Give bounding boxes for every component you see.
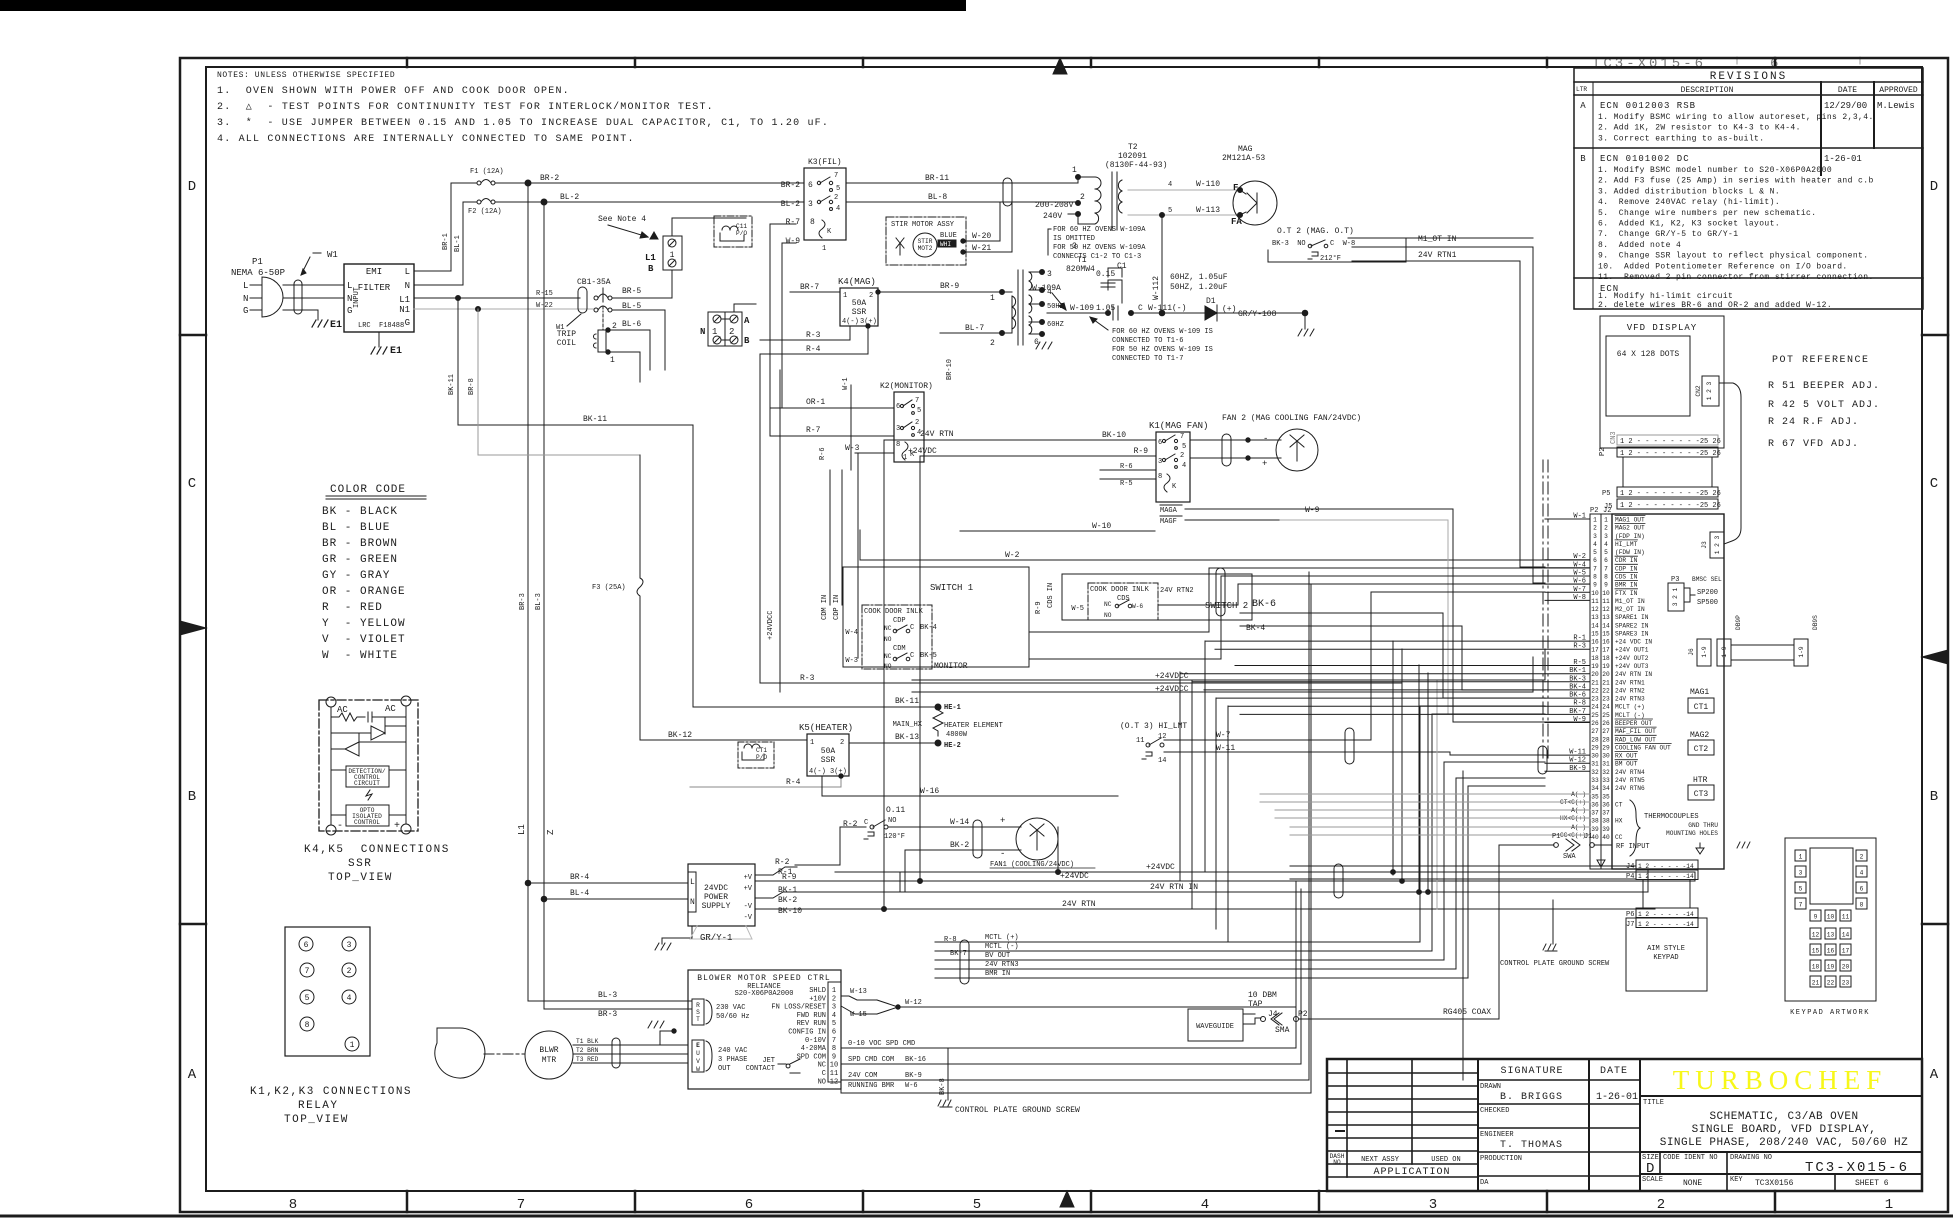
svg-text:+24 VDC IN: +24 VDC IN <box>1615 639 1652 646</box>
svg-text:DRAWING NO: DRAWING NO <box>1730 1154 1772 1162</box>
svg-text:1: 1 <box>1072 166 1077 175</box>
switch 2 outline <box>1062 574 1252 620</box>
R-2 wire to PS <box>795 827 866 865</box>
+24VDC lower run <box>835 871 1695 873</box>
svg-text:REVISIONS: REVISIONS <box>1710 71 1787 83</box>
svg-text:BL-3: BL-3 <box>535 593 543 610</box>
wire harness <box>448 224 1695 1100</box>
svg-text:M2_OT IN: M2_OT IN <box>1615 606 1645 613</box>
junction dots <box>882 907 887 912</box>
svg-text:W-113: W-113 <box>1196 206 1220 215</box>
svg-text:W-16: W-16 <box>920 787 939 796</box>
keypad ribbon feed <box>1290 865 1636 867</box>
svg-text:CONTROL PLATE GROUND SCREW: CONTROL PLATE GROUND SCREW <box>955 1106 1080 1115</box>
svg-text:WAVEGUIDE: WAVEGUIDE <box>1196 1023 1234 1031</box>
wire W-11 OT3 to pin 30 <box>1300 752 1545 755</box>
svg-text:34: 34 <box>1591 785 1599 792</box>
zone letters left/right <box>180 179 1948 1083</box>
svg-text:M1_OT IN: M1_OT IN <box>1418 235 1457 244</box>
svg-text:MOT2: MOT2 <box>918 245 933 252</box>
svg-text:W-2: W-2 <box>1005 551 1020 560</box>
svg-text:SMA: SMA <box>1275 1026 1290 1035</box>
svg-text:12/29/00: 12/29/00 <box>1824 101 1867 111</box>
svg-text:16: 16 <box>1591 639 1599 646</box>
svg-text:K: K <box>827 228 832 236</box>
svg-text:15: 15 <box>1591 631 1599 638</box>
wire N plug to EMI <box>283 297 344 299</box>
svg-text:8. Added note 4: 8. Added note 4 <box>1598 241 1681 250</box>
wire OR-1 <box>770 407 894 409</box>
triac diodes <box>331 718 406 740</box>
svg-text:MCTL (+): MCTL (+) <box>985 934 1019 942</box>
svg-text:D1: D1 <box>1206 297 1216 306</box>
svg-text:J2: J2 <box>1603 507 1611 515</box>
svg-text:POWER: POWER <box>704 893 728 902</box>
wire BL-4 to PS N <box>541 896 547 902</box>
coax RG405 <box>1299 959 1499 1019</box>
svg-text:BMSC SEL: BMSC SEL <box>1692 576 1722 583</box>
svg-text:V: V <box>696 1058 700 1065</box>
wire R-7 to K2 <box>770 435 894 437</box>
svg-text:120°F: 120°F <box>884 832 905 841</box>
svg-text:7: 7 <box>517 1197 525 1213</box>
svg-text:17: 17 <box>1591 647 1599 654</box>
cable dash-dot boundary <box>1542 460 1544 760</box>
svg-text:10: 10 <box>1827 914 1835 921</box>
svg-text:1: 1 <box>903 454 907 462</box>
svg-text:A: A <box>1930 1067 1939 1083</box>
svg-text:B: B <box>648 264 654 274</box>
svg-text:E1: E1 <box>330 320 342 331</box>
svg-text:3: 3 <box>896 425 900 433</box>
svg-text:MCTL (-): MCTL (-) <box>985 943 1019 951</box>
svg-text:FA: FA <box>1231 217 1242 227</box>
svg-text:KEY: KEY <box>1730 1176 1743 1184</box>
svg-text:BK-10: BK-10 <box>1102 431 1126 440</box>
previous sheet sliver top right <box>1592 56 1860 72</box>
svg-text:CT: CT <box>1615 801 1623 808</box>
K4 SSR / T1 / C1 network <box>760 226 1314 462</box>
svg-text:W: W <box>696 1066 700 1073</box>
svg-text:W-111(-): W-111(-) <box>1148 304 1186 313</box>
svg-text:BK-6: BK-6 <box>1252 599 1276 610</box>
svg-text:CB1-35A: CB1-35A <box>577 278 611 287</box>
svg-text:BK-4: BK-4 <box>920 624 937 632</box>
svg-text:P4: P4 <box>1626 873 1634 881</box>
connector J6 <box>1697 639 1711 666</box>
svg-text:12: 12 <box>830 1078 838 1086</box>
svg-text:7: 7 <box>1604 565 1608 572</box>
svg-text:V - VIOLET: V - VIOLET <box>322 634 406 646</box>
svg-text:A: A <box>188 1067 197 1083</box>
svg-text:+24V OUT2: +24V OUT2 <box>1615 655 1649 662</box>
svg-text:F1 (12A): F1 (12A) <box>470 168 504 176</box>
svg-text:NO: NO <box>884 636 892 643</box>
wire BR-3 to blower S <box>544 1008 692 1010</box>
svg-text:SWA: SWA <box>1563 853 1576 861</box>
svg-text:MCLT (+): MCLT (+) <box>1615 704 1645 711</box>
svg-text:PRODUCTION: PRODUCTION <box>1480 1155 1522 1163</box>
wire W-10 <box>960 530 1155 532</box>
svg-text:B: B <box>1930 789 1938 805</box>
svg-text:CONNECTS C1-2 TO C1-3: CONNECTS C1-2 TO C1-3 <box>1053 253 1141 261</box>
svg-text:HEATER ELEMENT: HEATER ELEMENT <box>944 722 1003 730</box>
svg-text:SPARE2 IN: SPARE2 IN <box>1615 622 1649 629</box>
svg-text:AC: AC <box>385 704 396 714</box>
svg-text:T: T <box>696 1016 700 1023</box>
svg-text:J3: J3 <box>1701 541 1708 549</box>
svg-text:MAGF: MAGF <box>1160 518 1177 526</box>
svg-text:K: K <box>1172 483 1177 491</box>
svg-text:+V: +V <box>744 885 753 893</box>
svg-text:MAGA: MAGA <box>1160 507 1178 515</box>
svg-text:L1: L1 <box>399 295 410 305</box>
svg-text:+24V OUT1: +24V OUT1 <box>1615 647 1649 654</box>
svg-text:MAG1 OUT: MAG1 OUT <box>1615 517 1645 524</box>
svg-text:W1: W1 <box>327 250 338 260</box>
svg-text:0-10 VOC SPD CMD: 0-10 VOC SPD CMD <box>848 1040 915 1048</box>
svg-text:TAP: TAP <box>1248 1000 1263 1009</box>
svg-text:12: 12 <box>1812 932 1820 939</box>
svg-text:DESCRIPTION: DESCRIPTION <box>1681 86 1734 95</box>
24VDC power supply <box>688 864 755 926</box>
svg-text:BR-3: BR-3 <box>598 1010 617 1019</box>
svg-text:6: 6 <box>808 181 813 190</box>
svg-text:+24V OUT3: +24V OUT3 <box>1615 663 1649 670</box>
svg-text:SP200: SP200 <box>1697 589 1718 597</box>
svg-text:19: 19 <box>1591 663 1599 670</box>
svg-text:38: 38 <box>1591 818 1599 825</box>
wire BR-9 K4 to T1 <box>878 291 1002 293</box>
svg-text:1 2 - - - - - - - -25 26: 1 2 - - - - - - - -25 26 <box>1620 490 1721 498</box>
BK wires risers <box>1215 698 1217 929</box>
control plate ground screw left <box>938 1100 952 1107</box>
svg-text:W-109: W-109 <box>1070 304 1094 313</box>
svg-text:(FDP IN): (FDP IN) <box>1615 533 1645 540</box>
svg-text:W-3: W-3 <box>845 657 858 665</box>
svg-text:R-8: R-8 <box>944 936 957 944</box>
svg-text:7. Change GR/Y-5 to GR/Y-1: 7. Change GR/Y-5 to GR/Y-1 <box>1598 230 1738 239</box>
svg-text:C: C <box>1138 304 1143 313</box>
svg-text:25: 25 <box>1591 712 1599 719</box>
svg-text:BL-2: BL-2 <box>781 200 800 209</box>
svg-text:P3: P3 <box>1671 576 1679 584</box>
svg-text:1: 1 <box>822 245 826 253</box>
svg-text:20: 20 <box>1842 964 1850 971</box>
svg-text:CONTROL: CONTROL <box>354 819 380 826</box>
svg-text:3: 3 <box>832 1004 836 1012</box>
riser W-3 to switch1 <box>857 453 859 658</box>
svg-text:3: 3 <box>1604 533 1608 540</box>
svg-text:23: 23 <box>1842 980 1850 987</box>
svg-text:BMR IN: BMR IN <box>985 970 1010 978</box>
svg-text:18: 18 <box>1591 655 1599 662</box>
svg-text:NO: NO <box>1104 612 1112 619</box>
wire W-109 <box>1047 312 1108 314</box>
svg-text:STIR MOTOR ASSY: STIR MOTOR ASSY <box>891 221 955 229</box>
wire W-2 to pin 6 <box>860 530 1590 560</box>
svg-text:CT2: CT2 <box>1694 745 1709 754</box>
svg-text:4: 4 <box>836 205 840 213</box>
PS output wire R-2 <box>755 867 797 875</box>
svg-text:0-10V: 0-10V <box>805 1037 827 1045</box>
wire 24V RTN1 run <box>1352 261 1545 567</box>
svg-text:SWITCH 1: SWITCH 1 <box>930 583 973 593</box>
svg-text:2: 2 <box>1180 452 1184 460</box>
wire EMI N out to BL-1 riser <box>414 202 463 285</box>
svg-text:1: 1 <box>1885 1197 1893 1213</box>
svg-text:9. Change SSR layout to refle: 9. Change SSR layout to reflect physical… <box>1598 252 1868 261</box>
svg-text:4: 4 <box>832 1012 836 1020</box>
svg-text:31: 31 <box>1602 761 1610 768</box>
svg-text:3: 3 <box>1593 533 1597 540</box>
svg-text:1: 1 <box>1799 854 1803 861</box>
svg-text:1: 1 <box>810 739 814 747</box>
svg-text:BR-5: BR-5 <box>622 287 641 296</box>
svg-text:1: 1 <box>843 292 847 300</box>
svg-text:(O.T 3) HI_LMT: (O.T 3) HI_LMT <box>1120 722 1187 731</box>
wire BL-3 to blower R <box>528 1000 692 1002</box>
svg-text:N: N <box>243 294 248 304</box>
wire CN2 to J3 <box>1719 383 1741 544</box>
svg-text:4: 4 <box>1182 462 1186 470</box>
svg-text:DB9P: DB9P <box>1735 615 1742 630</box>
svg-text:FWD RUN: FWD RUN <box>797 1012 826 1020</box>
svg-text:36: 36 <box>1602 801 1610 808</box>
svg-text:12: 12 <box>1591 606 1599 613</box>
svg-text:TC3X0156: TC3X0156 <box>1755 1179 1794 1188</box>
svg-text:CONTROL PLATE GROUND SCREW: CONTROL PLATE GROUND SCREW <box>1500 960 1610 968</box>
svg-text:BK-11: BK-11 <box>583 415 607 424</box>
svg-text:9: 9 <box>1814 914 1818 921</box>
24VDC power supply <box>655 858 1695 950</box>
svg-text:7: 7 <box>1799 902 1803 909</box>
svg-text:CHECKED: CHECKED <box>1480 1107 1509 1115</box>
wire W-111 to D1 <box>1131 312 1205 314</box>
K5 output wires <box>690 776 841 787</box>
wire from trip coil pin1 <box>610 352 640 382</box>
svg-text:BK-12: BK-12 <box>668 731 692 740</box>
svg-text:CDP IN: CDP IN <box>833 595 841 620</box>
svg-text:BR - BROWN: BR - BROWN <box>322 538 398 550</box>
wire 24V RTN to K1-6 <box>884 439 1156 441</box>
K1 K2 K3 relay top view <box>250 927 412 1126</box>
svg-text:KEYPAD ARTWORK: KEYPAD ARTWORK <box>1790 1009 1870 1017</box>
waveguide and coax <box>938 900 1610 1115</box>
svg-text:1 2 3: 1 2 3 <box>1706 381 1713 400</box>
svg-text:29: 29 <box>1602 744 1610 751</box>
K4 output wires R-3 R-4 <box>760 326 850 340</box>
connector P6 row <box>1636 908 1698 918</box>
svg-text:W-109A: W-109A <box>1032 284 1061 293</box>
svg-text:NEXT ASSY: NEXT ASSY <box>1361 1156 1400 1164</box>
svg-text:CT1: CT1 <box>1694 703 1709 712</box>
svg-text:6: 6 <box>1604 557 1608 564</box>
svg-text:EMI: EMI <box>366 267 382 277</box>
stir motor assembly <box>886 183 1012 265</box>
svg-text:21: 21 <box>1602 679 1610 686</box>
svg-text:BK - BLACK: BK - BLACK <box>322 506 398 518</box>
fan verticals to 24V rails <box>1392 641 1394 875</box>
cook door intlk switch 2 <box>1088 583 1158 620</box>
svg-text:NC: NC <box>1104 601 1112 608</box>
svg-text:E: E <box>696 1042 700 1049</box>
svg-text:2: 2 <box>832 995 836 1003</box>
svg-text:ECN 0101002 DC: ECN 0101002 DC <box>1600 154 1690 164</box>
detection control circuit <box>346 766 389 787</box>
svg-text:24: 24 <box>1602 704 1610 711</box>
svg-text:4: 4 <box>347 994 352 1003</box>
svg-text:7: 7 <box>834 172 838 180</box>
svg-text:BR-4: BR-4 <box>570 873 589 882</box>
svg-text:15: 15 <box>1812 948 1820 955</box>
EMI ground E1 <box>378 332 380 347</box>
svg-text:K5(HEATER): K5(HEATER) <box>799 723 853 733</box>
svg-text:NONE: NONE <box>1683 1179 1702 1188</box>
wires R-6 R-5 to K1-8 <box>1100 469 1156 471</box>
wire BK-2 <box>905 849 1013 851</box>
svg-text:S20-X06P0A2000: S20-X06P0A2000 <box>735 990 794 998</box>
svg-text:W - WHITE: W - WHITE <box>322 650 398 662</box>
svg-text:W-9: W-9 <box>1305 506 1320 515</box>
svg-text:CC: CC <box>1615 834 1623 841</box>
svg-text:L: L <box>690 878 695 887</box>
svg-text:R-4: R-4 <box>786 778 801 787</box>
wire BR-4 to PS L <box>525 880 531 886</box>
pin strip 1-12 <box>828 982 841 1082</box>
svg-text:T. THOMAS: T. THOMAS <box>1500 1140 1563 1151</box>
svg-text:FOR 60 HZ OVENS W-109 IS: FOR 60 HZ OVENS W-109 IS <box>1112 328 1213 336</box>
svg-text:6: 6 <box>1860 886 1864 893</box>
svg-text:33: 33 <box>1591 777 1599 784</box>
svg-text:2: 2 <box>834 194 838 202</box>
svg-text:7: 7 <box>832 1037 836 1045</box>
svg-text:24V RTN IN: 24V RTN IN <box>1150 883 1198 892</box>
wire MAGA run <box>1280 520 1448 714</box>
svg-text:6: 6 <box>896 403 900 411</box>
riser +24VDCC <box>779 370 781 692</box>
svg-text:BL-3: BL-3 <box>598 991 617 1000</box>
svg-text:+24VDC: +24VDC <box>908 447 937 456</box>
svg-text:P/O: P/O <box>736 230 747 237</box>
svg-text:4. ALL CONNECTIONS ARE INTERNA: 4. ALL CONNECTIONS ARE INTERNALLY CONNEC… <box>217 134 635 145</box>
svg-text:25: 25 <box>1602 712 1610 719</box>
fan1 + riser <box>1057 827 1059 872</box>
svg-text:+24VDCC: +24VDCC <box>767 611 775 640</box>
svg-text:230 VAC: 230 VAC <box>716 1004 745 1012</box>
svg-text:26: 26 <box>1602 720 1610 727</box>
connector P5 row <box>1617 487 1718 497</box>
svg-text:8: 8 <box>1158 473 1162 481</box>
svg-text:1 2 - - - - -14: 1 2 - - - - -14 <box>1638 873 1694 880</box>
svg-text:+V: +V <box>744 874 753 882</box>
svg-text:-: - <box>337 821 343 832</box>
svg-text:See Note 4: See Note 4 <box>598 215 646 224</box>
svg-text:34: 34 <box>1602 785 1610 792</box>
svg-text:22: 22 <box>1827 980 1835 987</box>
svg-text:SINGLE BOARD, VFD DISPLAY,: SINGLE BOARD, VFD DISPLAY, <box>1692 1124 1877 1136</box>
RF coax riser <box>1499 845 1554 959</box>
wire W-7 OT3 to pin 10 <box>1300 592 1545 740</box>
svg-text:BL-4: BL-4 <box>570 889 589 898</box>
svg-text:BK-1: BK-1 <box>778 886 797 895</box>
svg-text:16: 16 <box>1827 948 1835 955</box>
svg-text:C: C <box>188 476 196 492</box>
svg-text:BK-5: BK-5 <box>920 652 937 660</box>
svg-text:17: 17 <box>1602 647 1610 654</box>
svg-text:8: 8 <box>305 1021 310 1030</box>
svg-text:24V RTN3: 24V RTN3 <box>985 961 1019 969</box>
K4,K5 SSR top view diagram <box>319 700 418 831</box>
svg-text:SIGNATURE: SIGNATURE <box>1500 1066 1563 1077</box>
svg-text:6: 6 <box>745 1197 753 1213</box>
keypad display window <box>1810 848 1853 904</box>
thermo couple bundle <box>1260 793 1545 795</box>
svg-text:2. △ - TEST POINTS FOR CONTI: 2. △ - TEST POINTS FOR CONTINUNITY TEST … <box>217 101 714 113</box>
EUVW terminal <box>692 1040 704 1072</box>
svg-text:6. Added K1, K2, K3 socket la: 6. Added K1, K2, K3 socket layout. <box>1598 220 1780 229</box>
svg-text:T2: T2 <box>1128 143 1138 152</box>
svg-text:NEMA 6-50P: NEMA 6-50P <box>231 268 285 278</box>
wire R-3 to pin 17 <box>760 354 1402 683</box>
svg-text:29: 29 <box>1591 744 1599 751</box>
ground E1 <box>312 320 328 327</box>
svg-text:5: 5 <box>973 1197 981 1213</box>
svg-text:M1_OT IN: M1_OT IN <box>1615 598 1645 605</box>
svg-text:BL-6: BL-6 <box>622 320 641 329</box>
distribution block N <box>708 312 742 346</box>
svg-text:BR-10: BR-10 <box>946 359 954 380</box>
svg-text:P1: P1 <box>252 257 263 267</box>
svg-text:5: 5 <box>305 994 310 1003</box>
svg-text:13: 13 <box>1602 614 1610 621</box>
svg-text:CONTACT: CONTACT <box>746 1065 775 1073</box>
svg-text:1-9: 1-9 <box>1721 646 1728 657</box>
svg-text:SSR: SSR <box>348 858 372 870</box>
svg-text:BK-10: BK-10 <box>778 907 802 916</box>
svg-text:CDM: CDM <box>893 645 906 653</box>
svg-text:20: 20 <box>1591 671 1599 678</box>
svg-text:BM OUT: BM OUT <box>1615 761 1638 768</box>
snubber R + C <box>331 712 406 722</box>
svg-text:M.Lewis: M.Lewis <box>1877 101 1915 111</box>
svg-text:BK-11: BK-11 <box>448 374 456 395</box>
svg-text:K4(MAG): K4(MAG) <box>838 277 876 287</box>
svg-text:CIRCUIT: CIRCUIT <box>354 780 380 787</box>
svg-text:N: N <box>405 281 410 291</box>
svg-text:BR-2: BR-2 <box>540 174 559 183</box>
blower motor <box>435 1021 688 1079</box>
PS output wire R-1 <box>754 874 756 876</box>
svg-text:19: 19 <box>1827 964 1835 971</box>
svg-text:RELAY: RELAY <box>298 1100 339 1112</box>
svg-text:CODE IDENT NO: CODE IDENT NO <box>1663 1154 1718 1162</box>
svg-text:SUPPLY: SUPPLY <box>702 902 731 911</box>
switches and K1/FAN2 <box>821 414 1361 694</box>
top redacted black bar <box>0 0 966 11</box>
svg-text:W-9: W-9 <box>786 237 801 246</box>
BK-9 riser <box>1462 771 1464 1080</box>
svg-text:8: 8 <box>1593 574 1597 581</box>
svg-text:3: 3 <box>1799 870 1803 877</box>
fan1 cooling <box>843 806 1095 869</box>
svg-text:CN3: CN3 <box>1610 431 1618 444</box>
svg-text:31: 31 <box>1591 761 1599 768</box>
pot reference notes <box>1768 355 1880 450</box>
svg-text:1 2 - - - - - - - -25 26: 1 2 - - - - - - - -25 26 <box>1620 450 1721 458</box>
svg-text:24V RTN3: 24V RTN3 <box>1615 696 1645 703</box>
svg-text:5: 5 <box>917 407 921 415</box>
